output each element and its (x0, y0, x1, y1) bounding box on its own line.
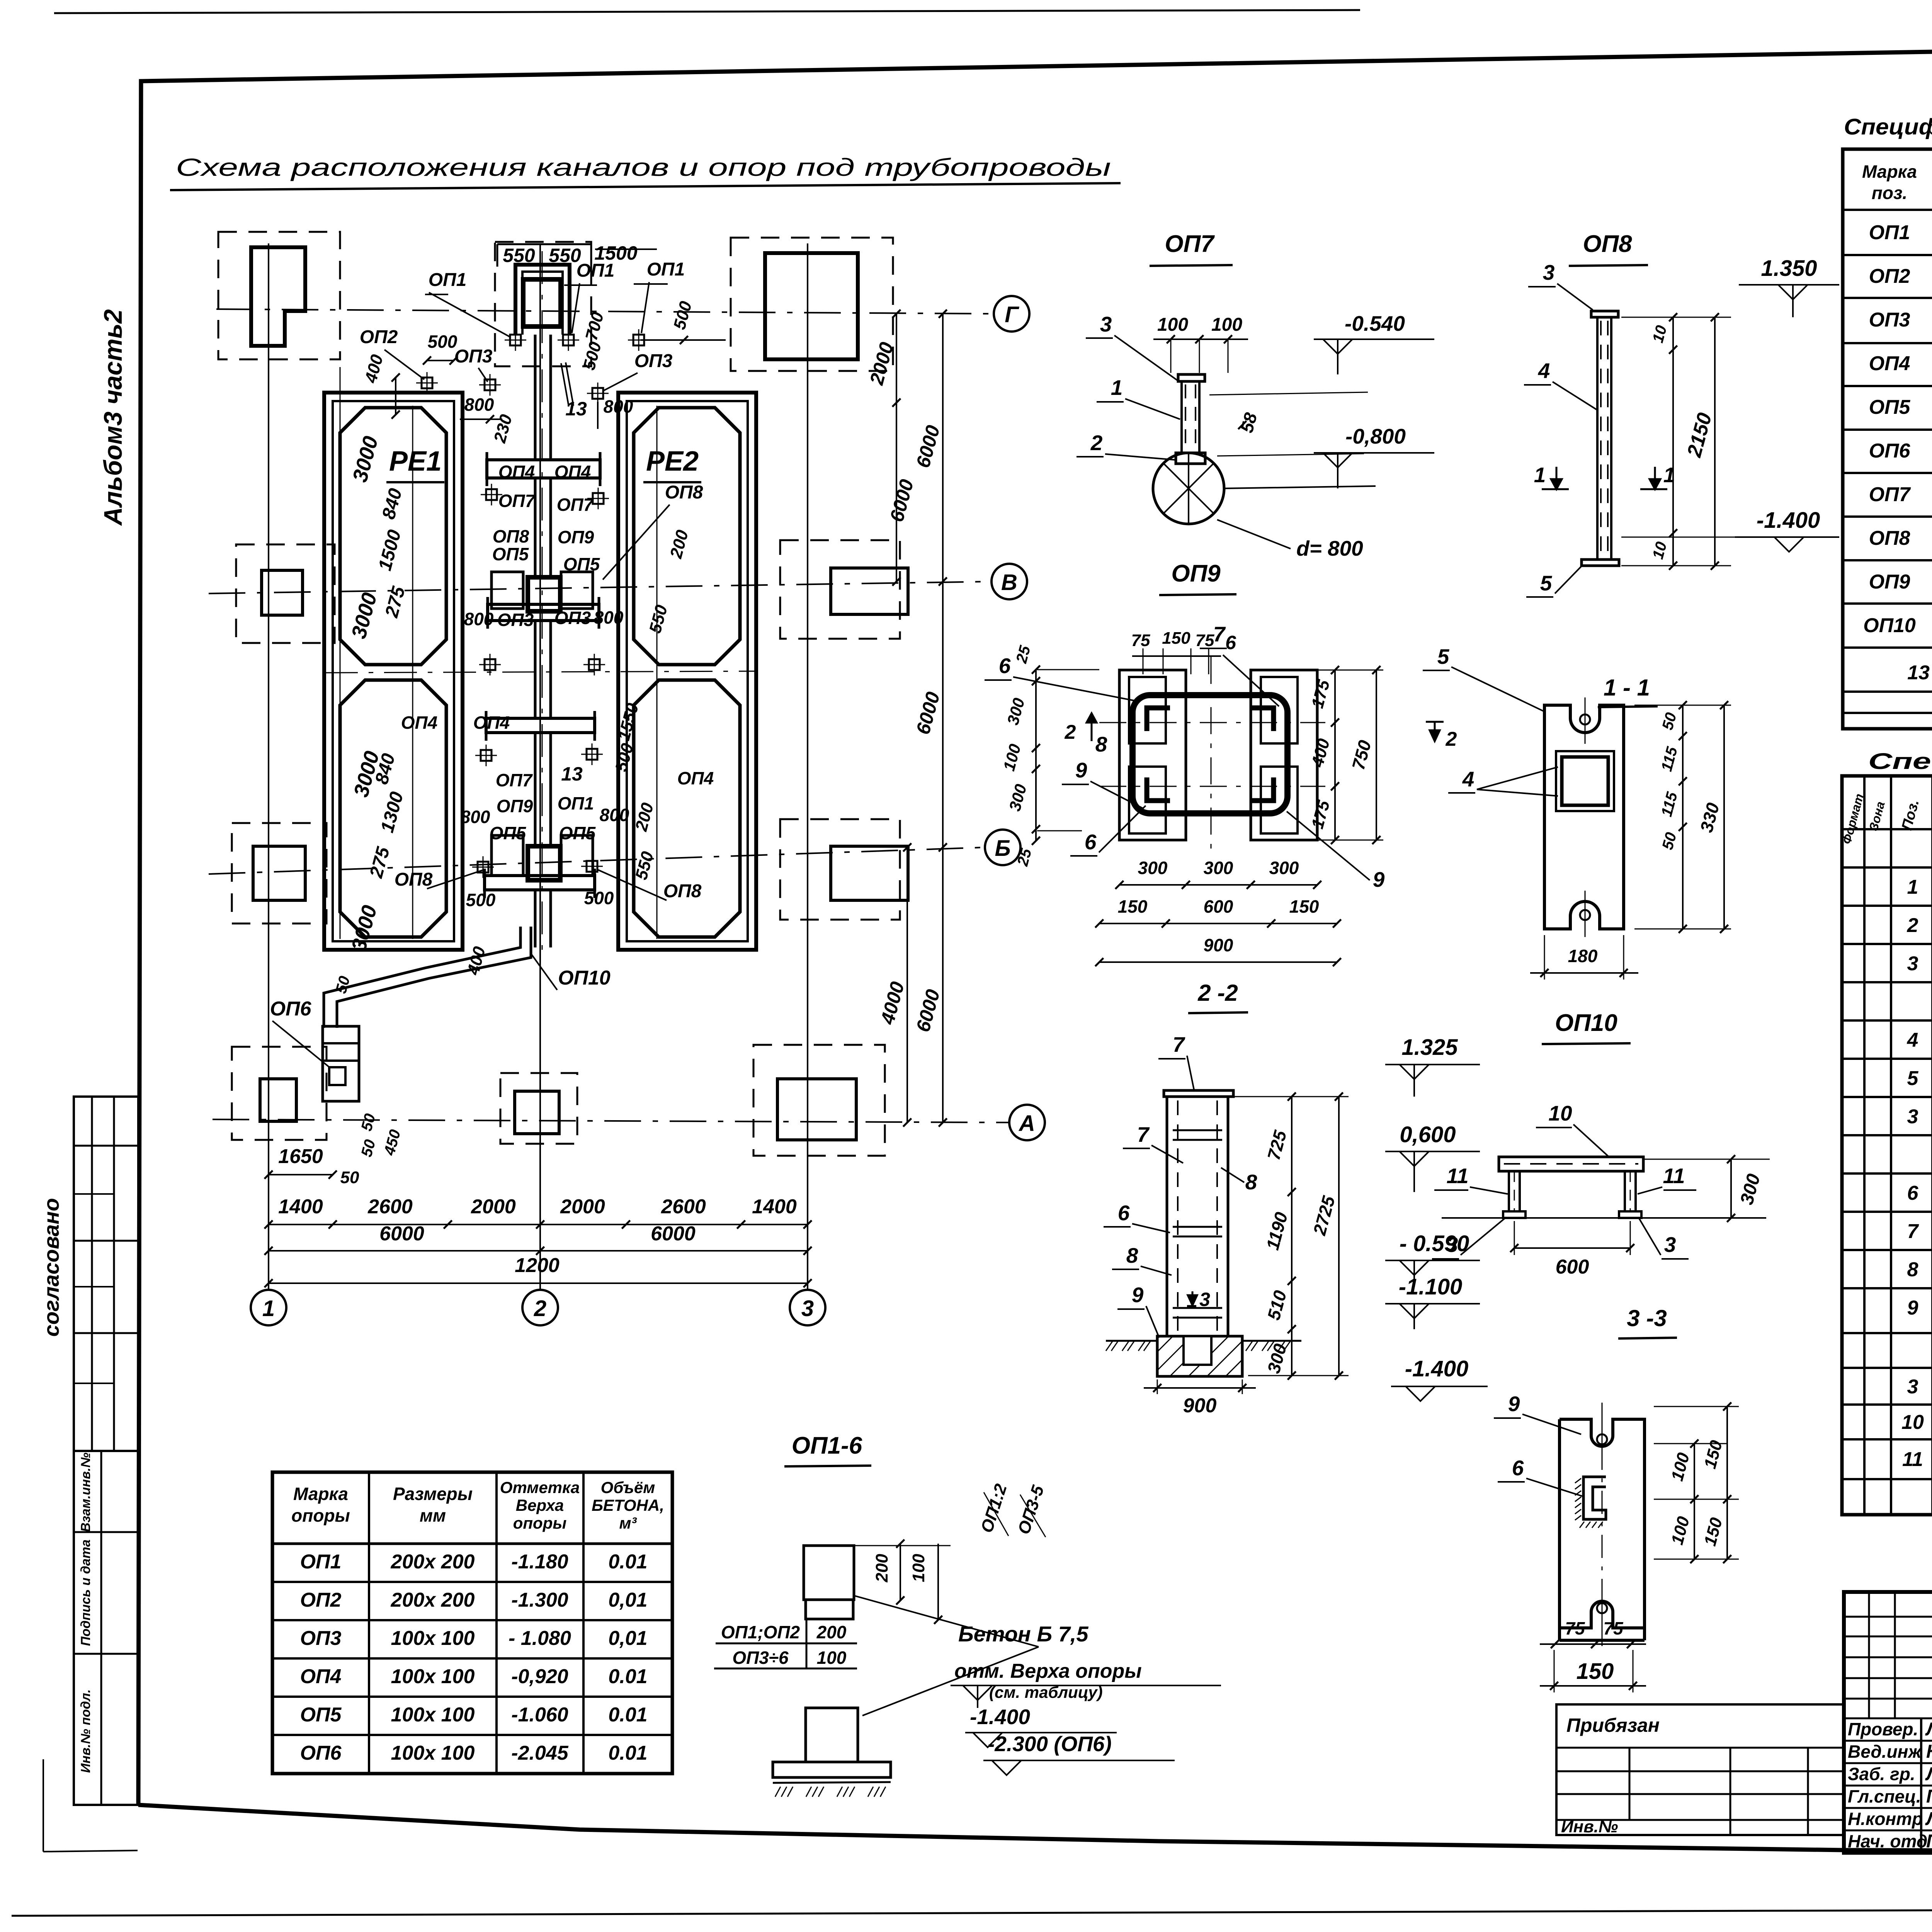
bent pipe to ОП6 (324, 927, 520, 1028)
svg-text:200: 200 (816, 1622, 847, 1642)
tank PE2 dim witness lines (656, 406, 658, 939)
svg-text:6: 6 (1907, 1182, 1919, 1204)
svg-text:2 -2: 2 -2 (1197, 980, 1238, 1006)
svg-text:5: 5 (1907, 1067, 1919, 1090)
svg-text:9: 9 (1132, 1283, 1144, 1307)
svg-text:ОП8: ОП8 (665, 482, 703, 503)
svg-text:ОП1: ОП1 (558, 793, 594, 813)
tank PE2 outer wall (618, 393, 756, 950)
ОП8 bottom plate (1582, 560, 1619, 566)
svg-text:Инв.№ подл.: Инв.№ подл. (78, 1689, 93, 1773)
plan axis row А (213, 1119, 1009, 1122)
ОП10 dim 300 (1730, 1159, 1732, 1218)
svg-text:ОП1: ОП1 (300, 1551, 342, 1573)
ОП8 column (1596, 317, 1599, 560)
svg-text:ОП4: ОП4 (1869, 352, 1910, 375)
svg-text:100: 100 (1211, 315, 1242, 335)
svg-text:Левина: Левина (1925, 1719, 1932, 1740)
svg-text:-2.300 (ОП6): -2.300 (ОП6) (988, 1732, 1112, 1756)
svg-text:10: 10 (1548, 1101, 1572, 1125)
svg-text:1400: 1400 (752, 1196, 797, 1218)
svg-text:800: 800 (464, 395, 494, 415)
svg-text:0.01: 0.01 (608, 1551, 647, 1573)
column Г-3 (765, 253, 858, 359)
plan axis row В (209, 582, 992, 594)
svg-text:800: 800 (461, 807, 490, 827)
svg-text:ОП7: ОП7 (557, 495, 594, 515)
channel stem 4 (534, 733, 537, 846)
svg-text:9: 9 (1508, 1392, 1520, 1416)
svg-text:Пронин: Пронин (1926, 1786, 1932, 1807)
svg-text:Б: Б (995, 836, 1010, 861)
footing А-2 dashed (500, 1073, 577, 1144)
channel arm 3 (486, 718, 595, 733)
svg-text:-1.400: -1.400 (1757, 508, 1820, 533)
svg-text:- 0.590: - 0.590 (1400, 1231, 1469, 1256)
ОП9 left channel webs (1129, 677, 1166, 743)
svg-text:опоры: опоры (513, 1514, 567, 1532)
svg-text:150: 150 (1162, 629, 1190, 648)
paper top edge (54, 10, 1360, 13)
svg-text:м³: м³ (619, 1514, 637, 1532)
1-1 dims right (1634, 705, 1731, 706)
1-1 dim 180 (1530, 972, 1638, 974)
svg-text:ОП6: ОП6 (270, 998, 312, 1020)
tank PE2 cell 2 (634, 680, 740, 937)
plan axis row Б (209, 847, 985, 874)
svg-text:6: 6 (1225, 632, 1236, 653)
svg-text:800: 800 (594, 607, 624, 628)
svg-text:3: 3 (1664, 1233, 1676, 1257)
svg-text:100: 100 (817, 1648, 847, 1668)
ОП10 top plate (1499, 1157, 1643, 1171)
svg-text:5: 5 (1540, 571, 1553, 595)
svg-text:ОП2: ОП2 (300, 1589, 342, 1611)
title block small rows (1844, 1616, 1932, 1618)
3-3 plate lower part (1558, 1628, 1561, 1640)
plan axis column line 3 (807, 243, 808, 1290)
svg-text:Н.контр: Н.контр (1848, 1809, 1923, 1829)
tank mid dash line (325, 671, 757, 673)
svg-text:Альбом3 часть2: Альбом3 часть2 (99, 309, 127, 526)
svg-text:Левина: Левина (1925, 1764, 1932, 1784)
ОП7 dim 58 (1209, 392, 1368, 395)
svg-text:ОП1: ОП1 (429, 270, 467, 290)
svg-text:ОП2: ОП2 (1869, 265, 1910, 287)
ОП9 right channel webs (1261, 677, 1298, 743)
svg-text:6000: 6000 (379, 1223, 424, 1245)
svg-text:ОП9: ОП9 (1171, 560, 1221, 587)
svg-text:900: 900 (1204, 935, 1233, 955)
svg-text:ОП3÷6: ОП3÷6 (732, 1648, 789, 1668)
3-3 plate (1560, 1419, 1645, 1628)
svg-text:8: 8 (1245, 1170, 1257, 1194)
svg-text:ОП4: ОП4 (401, 713, 437, 733)
footing А-1 dashed (232, 1047, 327, 1140)
tank PE1 cell 2 (340, 680, 446, 937)
svg-text:0.01: 0.01 (608, 1704, 647, 1726)
svg-text:10: 10 (1901, 1411, 1924, 1434)
svg-text:100х 100: 100х 100 (391, 1665, 475, 1688)
svg-text:ОП9: ОП9 (558, 527, 594, 547)
footing Г-1 dashed (218, 232, 340, 359)
svg-text:- 1.080: - 1.080 (509, 1627, 571, 1650)
svg-text:3: 3 (1907, 952, 1918, 975)
ОП7 pipe circle (1153, 453, 1224, 524)
svg-text:БЕТОНА,: БЕТОНА, (592, 1496, 664, 1514)
svg-text:Гл.спец.: Гл.спец. (1848, 1786, 1921, 1806)
ОП1-6 upper column (804, 1546, 854, 1600)
svg-text:ОП8: ОП8 (395, 869, 433, 890)
ОП8 dim 10/2150/10 (1621, 317, 1731, 318)
channel stem walls (534, 335, 537, 460)
svg-text:ОП1-6: ОП1-6 (792, 1432, 862, 1459)
svg-text:РЕ1: РЕ1 (389, 446, 442, 477)
svg-text:2000: 2000 (560, 1196, 605, 1218)
svg-text:Верха: Верха (516, 1496, 564, 1514)
svg-text:Провер.: Провер. (1848, 1719, 1918, 1739)
svg-text:300: 300 (1204, 858, 1233, 878)
svg-text:6: 6 (1512, 1456, 1524, 1480)
svg-text:1650: 1650 (278, 1145, 323, 1168)
2-2 foundation (1157, 1336, 1242, 1376)
svg-text:ОП9: ОП9 (497, 796, 533, 816)
svg-text:3: 3 (1907, 1376, 1918, 1398)
svg-text:-1.180: -1.180 (511, 1551, 568, 1573)
svg-text:Схема расположения каналов и: Схема расположения каналов и опор под тр… (176, 153, 1111, 181)
svg-text:согласовано: согласовано (39, 1198, 63, 1337)
svg-text:900: 900 (1183, 1395, 1217, 1417)
svg-text:-2.045: -2.045 (511, 1742, 569, 1764)
svg-text:-0.540: -0.540 (1345, 311, 1405, 335)
channel arm 2 (488, 604, 599, 621)
plan axis column line 1 (268, 243, 269, 1290)
svg-text:200: 200 (872, 1554, 891, 1583)
channel stem 2 (534, 478, 537, 577)
svg-text:ОП7: ОП7 (1869, 483, 1911, 506)
svg-text:3: 3 (1446, 1233, 1458, 1257)
spec table 2 grid (1842, 776, 1932, 1515)
ОП1-6 lower column (806, 1708, 858, 1762)
svg-text:ОП7: ОП7 (498, 491, 536, 511)
svg-text:11: 11 (1902, 1448, 1923, 1471)
svg-text:0.01: 0.01 (608, 1742, 647, 1764)
svg-text:ОП3: ОП3 (1869, 309, 1910, 331)
attachment grid (1556, 1704, 1844, 1835)
svg-text:800: 800 (600, 805, 629, 825)
svg-text:7: 7 (1137, 1122, 1150, 1146)
svg-text:13: 13 (1907, 662, 1930, 684)
svg-text:Подпись и дата: Подпись и дата (78, 1539, 93, 1646)
footing Б-1 dashed (232, 823, 327, 923)
svg-text:8: 8 (1095, 732, 1107, 756)
svg-text:ОП1: ОП1 (647, 259, 685, 280)
svg-text:1: 1 (1907, 876, 1918, 898)
svg-text:Объём: Объём (601, 1478, 655, 1497)
svg-text:Марка: Марка (293, 1484, 348, 1504)
footing В-1 dashed (236, 544, 335, 643)
axis circle 1 (251, 1290, 286, 1325)
svg-text:4: 4 (1538, 359, 1550, 383)
svg-text:9: 9 (1075, 758, 1087, 782)
svg-text:1200: 1200 (515, 1254, 560, 1277)
svg-text:2: 2 (1446, 728, 1457, 750)
svg-text:75: 75 (1565, 1618, 1585, 1638)
2-2 dim 900 (1144, 1387, 1256, 1389)
svg-text:100: 100 (909, 1554, 928, 1582)
svg-text:ОП3: ОП3 (554, 608, 591, 628)
svg-text:ОП3: ОП3 (634, 351, 673, 371)
dim 1650 (269, 1174, 333, 1175)
svg-text:150: 150 (1118, 896, 1148, 917)
svg-text:6: 6 (999, 654, 1011, 678)
svg-text:2000: 2000 (471, 1196, 516, 1218)
svg-text:200х 200: 200х 200 (391, 1551, 475, 1573)
column В-3 (831, 568, 908, 614)
svg-text:2: 2 (1907, 914, 1918, 937)
channel centerline (542, 251, 543, 951)
svg-text:опоры: опоры (291, 1505, 350, 1526)
svg-text:ОП6: ОП6 (300, 1742, 342, 1764)
svg-text:-1.400: -1.400 (1405, 1356, 1468, 1381)
column А-3 (777, 1079, 856, 1140)
svg-text:Марка: Марка (1862, 162, 1917, 182)
svg-text:-1.060: -1.060 (511, 1704, 568, 1726)
svg-text:Заб. гр.: Заб. гр. (1848, 1764, 1915, 1784)
column Г-1 L-shape (251, 247, 305, 346)
column Б-1 (253, 846, 305, 900)
ОП1-6 ground hatch (775, 1787, 781, 1797)
svg-text:ОП5: ОП5 (559, 823, 596, 843)
svg-text:Письман: Письман (1926, 1831, 1932, 1852)
2-2 column (1167, 1097, 1228, 1336)
ОП10 dim 600 (1514, 1247, 1630, 1249)
svg-text:ОП5: ОП5 (300, 1704, 342, 1726)
tank PE1 cell 1 (340, 408, 446, 665)
column Б-3 (831, 846, 908, 900)
footing А-3 dashed (753, 1045, 885, 1156)
svg-text:ОП3: ОП3 (497, 610, 534, 630)
svg-text:300: 300 (1269, 858, 1299, 878)
svg-text:200х 200: 200х 200 (391, 1589, 475, 1611)
svg-text:7: 7 (1907, 1220, 1919, 1243)
svg-text:500: 500 (584, 888, 614, 908)
svg-text:75: 75 (1603, 1618, 1624, 1638)
axis circle 2 (522, 1290, 558, 1325)
title block outer (1844, 1592, 1932, 1853)
svg-text:ОП8: ОП8 (663, 881, 702, 901)
plan right dim chains (896, 314, 897, 582)
svg-text:А: А (1018, 1111, 1035, 1136)
ОП7 stem (1180, 381, 1183, 453)
ОП9 top dims (1132, 655, 1221, 657)
svg-text:500: 500 (466, 890, 496, 910)
svg-text:800: 800 (604, 396, 633, 417)
svg-text:11: 11 (1663, 1164, 1685, 1188)
ОП9 axes (1099, 722, 1325, 723)
svg-text:5: 5 (1437, 645, 1450, 668)
svg-text:50: 50 (340, 1168, 359, 1187)
ОП9 left dim chain (1035, 670, 1037, 841)
svg-text:Спецификация к схеме располож: Спецификация к схеме расположения канало… (1844, 114, 1932, 139)
3-3 dims right (1654, 1443, 1727, 1444)
svg-text:800: 800 (464, 609, 494, 629)
svg-text:ОП2: ОП2 (360, 327, 398, 347)
svg-text:Вед.инж: Вед.инж (1848, 1742, 1922, 1762)
svg-text:РЕ2: РЕ2 (646, 446, 699, 477)
footing Г-3 dashed (731, 238, 893, 371)
svg-text:поз.: поз. (1872, 183, 1907, 203)
ОП9 right channel outer (1251, 670, 1317, 840)
svg-text:1400: 1400 (278, 1196, 323, 1218)
tank PE2 cell 1 (634, 408, 740, 665)
svg-text:100: 100 (1157, 315, 1188, 335)
svg-text:0.01: 0.01 (608, 1665, 647, 1688)
svg-text:3 -3: 3 -3 (1627, 1305, 1667, 1331)
svg-text:В: В (1001, 570, 1017, 595)
svg-text:7: 7 (1213, 622, 1226, 646)
svg-text:ОП4: ОП4 (300, 1665, 342, 1688)
svg-text:75: 75 (1131, 631, 1150, 650)
svg-text:500: 500 (428, 332, 457, 352)
svg-text:1: 1 (262, 1296, 275, 1321)
svg-text:ОП5: ОП5 (490, 823, 527, 843)
svg-text:600: 600 (1556, 1256, 1589, 1278)
svg-text:ОП10: ОП10 (1555, 1010, 1617, 1036)
svg-text:ОП10: ОП10 (558, 967, 611, 989)
svg-text:600: 600 (1204, 896, 1233, 917)
svg-text:-1.100: -1.100 (1399, 1274, 1462, 1299)
column В-1 (262, 570, 303, 615)
svg-text:8: 8 (1126, 1243, 1138, 1267)
junction В chamber (528, 577, 560, 611)
svg-text:ОП5: ОП5 (492, 544, 529, 564)
svg-text:2600: 2600 (367, 1196, 413, 1218)
column ОП6 (323, 1026, 359, 1101)
svg-text:3: 3 (1100, 312, 1112, 336)
channel head dashed box (495, 242, 591, 366)
title block name rows (1844, 1718, 1932, 1719)
svg-text:ОП8: ОП8 (1869, 527, 1910, 549)
svg-text:2: 2 (1065, 721, 1076, 743)
svg-text:ОП10: ОП10 (1863, 614, 1916, 637)
2-2 right dim chain (1291, 1097, 1293, 1376)
left stamp boxes upper (74, 1097, 138, 1451)
svg-text:ОП4: ОП4 (554, 462, 591, 482)
svg-text:Размеры: Размеры (393, 1484, 473, 1504)
svg-text:ОП7: ОП7 (496, 770, 533, 790)
junction Б chamber (528, 846, 560, 880)
svg-text:6: 6 (1085, 830, 1097, 854)
ОП7 circle centerline (1224, 486, 1376, 488)
svg-text:Отметка: Отметка (500, 1478, 580, 1497)
paper bottom edge (12, 1908, 1932, 1916)
column А-2 (515, 1091, 559, 1134)
svg-text:d= 800: d= 800 (1296, 536, 1363, 560)
3-3 channel weld mark (1583, 1477, 1606, 1519)
channel arm 1 (487, 460, 600, 478)
svg-text:ОП8: ОП8 (1583, 231, 1632, 257)
ОП9 bottom dims (1119, 884, 1317, 886)
ОП9 corner channel marks (1147, 708, 1170, 731)
3-3 bottom dims (1540, 1643, 1646, 1645)
channel head chamber (523, 279, 561, 327)
support table (272, 1472, 672, 1774)
2-2 column top plate (1164, 1090, 1233, 1097)
svg-text:ОП1: ОП1 (577, 260, 615, 281)
svg-text:1.325: 1.325 (1401, 1035, 1458, 1060)
ОП1-6 mini table (716, 1643, 857, 1645)
svg-text:ОП6: ОП6 (1869, 440, 1911, 462)
svg-text:Лазарева: Лазарева (1925, 1809, 1932, 1829)
svg-text:9: 9 (1907, 1297, 1918, 1319)
1-1 plate (1544, 705, 1624, 929)
tank PE1 inner wall (333, 401, 454, 941)
tank PE1 outer wall (324, 393, 463, 950)
svg-text:7: 7 (1173, 1032, 1185, 1056)
svg-text:-1.400: -1.400 (970, 1705, 1030, 1729)
svg-text:Прибязан: Прибязан (1566, 1714, 1660, 1736)
channel stem 3 (534, 621, 537, 718)
svg-text:1: 1 (1111, 376, 1123, 400)
svg-text:Капустин: Капустин (1926, 1742, 1932, 1762)
svg-text:ОП8: ОП8 (493, 526, 529, 546)
svg-text:3: 3 (1199, 1289, 1210, 1310)
ОП7 collar (1176, 453, 1205, 464)
svg-text:ОП5: ОП5 (563, 554, 600, 574)
svg-text:отм. Верха опоры: отм. Верха опоры (954, 1660, 1142, 1682)
svg-text:0,01: 0,01 (608, 1589, 647, 1611)
ОП10 ground line (1442, 1217, 1766, 1219)
svg-text:11: 11 (1446, 1164, 1468, 1188)
svg-text:ОП4: ОП4 (498, 462, 535, 482)
svg-text:2: 2 (534, 1296, 546, 1321)
svg-text:ОП9: ОП9 (1869, 571, 1910, 593)
svg-text:2600: 2600 (661, 1196, 706, 1218)
svg-text:мм: мм (420, 1505, 446, 1526)
svg-text:150: 150 (1577, 1659, 1614, 1684)
svg-text:1 - 1: 1 - 1 (1604, 675, 1650, 701)
svg-text:100х 100: 100х 100 (391, 1627, 475, 1650)
axis circle 3 (790, 1290, 825, 1325)
svg-text:3: 3 (1907, 1105, 1918, 1128)
ОП9 left channel outer (1119, 670, 1186, 840)
svg-text:75: 75 (1196, 631, 1214, 650)
junction В plates (492, 572, 523, 609)
svg-text:ОП7: ОП7 (1165, 231, 1215, 257)
plan axis column line 2 (539, 243, 541, 1290)
ОП9 right dims (1334, 670, 1336, 840)
svg-text:ОП5: ОП5 (1869, 396, 1911, 418)
plan bottom dim chain 1 (269, 1224, 808, 1225)
plan axis row Г (216, 309, 994, 314)
svg-text:3: 3 (1543, 260, 1555, 284)
svg-text:3: 3 (801, 1296, 814, 1321)
svg-text:4: 4 (1462, 767, 1475, 791)
svg-text:1: 1 (1534, 463, 1546, 487)
footing В-3 dashed (780, 540, 900, 639)
ОП9 thick frame (1133, 695, 1287, 813)
channel stem 5 (534, 890, 537, 947)
svg-text:2: 2 (1090, 431, 1103, 455)
plan bottom dim chain 3 (269, 1282, 808, 1284)
channel head bracket 550 550 (497, 243, 591, 245)
svg-text:13: 13 (561, 763, 583, 785)
svg-text:ОП1;ОП2: ОП1;ОП2 (721, 1622, 800, 1642)
svg-text:ОП1: ОП1 (1869, 221, 1910, 244)
paper bottom-left corner mark (43, 1759, 44, 1852)
svg-text:-0,920: -0,920 (511, 1665, 568, 1688)
